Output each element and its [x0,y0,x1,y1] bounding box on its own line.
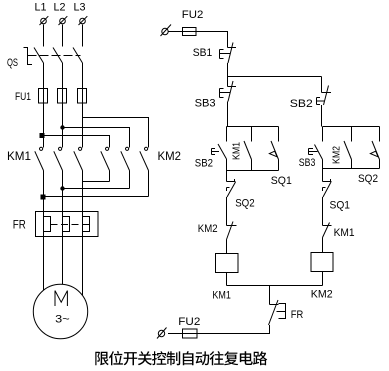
wire QS pole 1 out [43,63,45,147]
KM1 main contact pole 2 [54,147,63,170]
svg-text:SB1: SB1 [193,47,213,59]
button SB3 [220,77,237,102]
wire phase3 to KM2 pole3 [83,118,149,148]
KM1 main contact pole 1 [35,147,44,170]
relay FR box [36,212,99,237]
svg-text:FU2: FU2 [182,9,204,21]
svg-text:KM1: KM1 [212,289,231,301]
svg-text:KM1: KM1 [231,142,243,160]
caption 限位开关控制自动往复电路 [95,351,267,365]
wire right block top [323,126,380,128]
wire motor lead 3 [82,171,84,296]
wire split to SB2 [321,77,323,93]
wire KM2 interlock to coil KM1 [226,240,228,254]
fuse FU1 pole 3 [78,89,87,104]
terminal L2 [59,16,68,25]
svg-text:KM2: KM2 [331,146,343,164]
wire bottom rail [227,285,323,287]
wire KM1 interlock to coil KM2 [322,238,324,253]
terminal L3 [79,16,88,25]
wire KM2 pole2 to phase2 [63,188,130,190]
button SB2 start contact [212,127,227,171]
svg-text:3~: 3~ [55,314,70,326]
wire KM2 pole2 bottom [129,171,131,189]
relay FR heater element 1 [44,217,51,232]
svg-text:KM2: KM2 [311,289,333,301]
wire right block bottom [323,168,380,170]
switch QS blade pole 2 [53,48,63,64]
contact KM2 interlock [227,222,237,240]
fuse FU2 bottom [183,329,198,338]
wire L1 drop [43,25,45,47]
relay FR heater element 2 [63,217,70,232]
wire left block top [227,126,279,128]
wire SQ1 to KM1 interlock [322,197,324,226]
contact FR overload [269,300,286,325]
svg-text:FU2: FU2 [178,316,200,328]
fuse FU1 pole 2 [58,89,67,104]
wire KM2 pole3 to phase1 [44,196,149,198]
switch QS blade pole 1 [34,48,44,64]
wire phase1 to KM2 pole1 [44,136,110,148]
limit switch SQ1 NO [269,127,278,171]
contact KM1 interlock [323,223,332,238]
svg-text:KM2: KM2 [198,223,218,235]
svg-text:SQ1: SQ1 [271,175,292,187]
button SB3 start contact [309,127,323,169]
wire rail to FR contact [269,286,271,305]
wire QS pole 2 out [62,63,64,147]
svg-text:SB2: SB2 [195,158,213,170]
limit switch SQ1 NC [323,179,332,197]
svg-text:L2: L2 [54,2,66,14]
wire right block to SQ1 [322,169,324,182]
junction square phase1 lower [41,195,46,200]
limit switch SQ2 NC [227,179,236,197]
motor M1 circle [33,284,87,338]
junction dot phase2 [60,125,64,129]
wire SB3 to left block [227,102,229,127]
svg-text:QS: QS [7,57,18,69]
svg-text:FR: FR [13,217,26,231]
svg-text:SQ2: SQ2 [358,173,378,185]
wire terminal to fuse [168,31,182,33]
wire QS pole 3 out [82,63,84,147]
wire L3 drop [82,25,84,47]
wire FR to bottom fuse [168,325,270,334]
svg-text:SB3: SB3 [299,157,316,169]
switch QS linkage [28,55,81,57]
svg-text:KM1: KM1 [7,149,31,163]
svg-text:L3: L3 [74,2,86,14]
svg-text:FR: FR [291,309,304,321]
KM1 main contact pole 3 [74,147,83,170]
coil KM2 [311,253,333,272]
switch QS blade pole 3 [73,48,83,64]
svg-text:SQ2: SQ2 [235,197,255,209]
svg-text:SB3: SB3 [195,97,216,109]
KM2 main contact pole 2 [121,147,130,170]
svg-text:SB2: SB2 [290,98,313,110]
wire L2 drop [62,25,64,47]
button SB1 [220,43,237,64]
switch QS bracket [24,48,33,65]
wire KM2 pole3 bottom [148,171,150,197]
wire motor lead 1 [43,171,45,291]
wire coil KM2 to bottom rail [322,272,324,286]
coil KM1 [216,254,239,273]
wire left block to SQ2 [226,171,228,182]
wire KM2 pole1 to phase3 [83,181,110,183]
wire SB2 to right block [321,105,323,127]
terminal control top [161,25,172,37]
fuse FU1 pole 1 [39,89,48,104]
svg-text:SQ1: SQ1 [330,199,351,211]
wire split horizontal [228,76,322,78]
svg-text:KM1: KM1 [334,227,355,239]
terminal L1 [40,16,49,25]
relay FR linkage [51,224,90,226]
wire phase2 to KM2 pole2 [63,128,130,148]
wire left block bottom [227,170,279,172]
wire SQ2 to KM2 interlock [226,197,228,226]
svg-text:L1: L1 [35,2,47,14]
fuse FU2 top [183,28,197,36]
KM2 main contact pole 1 [101,147,110,170]
button SB2 [317,86,332,106]
KM2 main contact pole 3 [140,147,149,170]
wire motor lead 2 [62,171,64,285]
wire SB1 to split [227,63,229,77]
contact KM2 aux [344,127,352,169]
contact KM1 aux [244,127,252,171]
relay FR heater element 3 [83,217,90,232]
motor M1 letter [55,291,67,306]
junction dot phase2 lower [60,186,64,190]
terminal control bottom [157,328,167,339]
junction square phase1 [40,133,45,138]
svg-text:FU1: FU1 [15,91,31,103]
wire KM2 pole1 bottom [109,171,111,182]
wire coil KM1 to bottom rail [226,273,228,286]
limit switch SQ2 NO [370,127,379,169]
svg-text:KM2: KM2 [158,149,182,163]
wire FU2 to SB1 [183,32,228,48]
